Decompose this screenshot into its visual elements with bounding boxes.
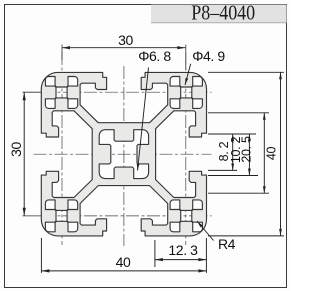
svg-text:P8–4040: P8–4040 [191,1,255,25]
svg-text:12. 3: 12. 3 [168,242,198,258]
svg-text:R4: R4 [218,236,236,252]
svg-text:Φ6. 8: Φ6. 8 [138,48,171,64]
svg-text:30: 30 [8,142,24,157]
svg-text:30: 30 [118,32,133,48]
svg-text:40: 40 [264,147,278,161]
svg-text:20. 5: 20. 5 [240,136,254,163]
svg-text:40: 40 [116,254,131,270]
svg-text:Φ4. 9: Φ4. 9 [192,48,225,64]
